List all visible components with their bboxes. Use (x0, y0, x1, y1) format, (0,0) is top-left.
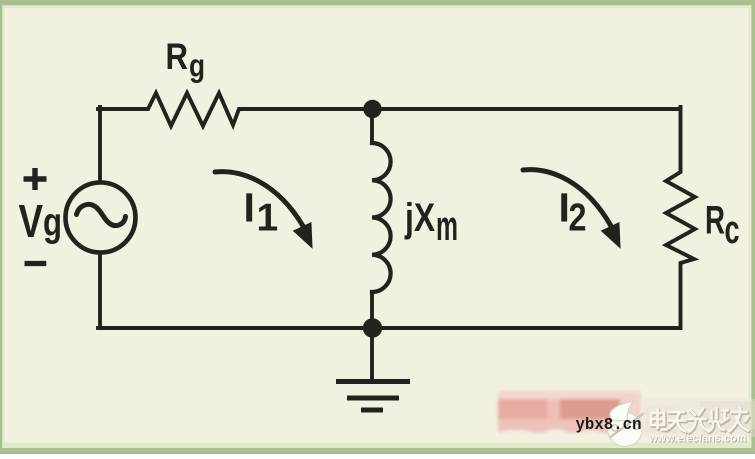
resistor Rc (666, 168, 695, 266)
inductor top stub (370, 109, 374, 143)
watermark pink mosaic patch (498, 391, 641, 439)
svg-text:R: R (166, 35, 189, 77)
wire top right of Rg to node A (243, 107, 372, 111)
wire bottom (98, 326, 681, 330)
label I1 (244, 185, 279, 240)
wire right vertical upper (679, 107, 683, 168)
watermark logo circle (608, 402, 645, 447)
label plus (24, 168, 47, 190)
svg-text:g: g (189, 48, 205, 84)
svg-text:c: c (725, 208, 740, 252)
watermark logo leaf (610, 402, 634, 422)
svg-text:1: 1 (257, 197, 279, 240)
inductor jXm (372, 143, 391, 292)
label Vg (19, 195, 63, 247)
svg-text:g: g (43, 201, 62, 245)
wire node A to top right corner (372, 107, 681, 111)
svg-text:I: I (244, 185, 255, 231)
svg-text:jX: jX (404, 196, 435, 240)
label jXm (404, 196, 458, 249)
label minus (25, 261, 47, 266)
svg-text:R: R (705, 199, 725, 243)
svg-text:www.elecfans.com: www.elecfans.com (648, 433, 747, 445)
svg-text:V: V (19, 195, 44, 247)
svg-text:m: m (436, 202, 458, 249)
svg-text:ybx8.cn: ybx8.cn (576, 416, 642, 435)
voltage source Vg (66, 183, 136, 253)
watermark logo bead 2 (633, 424, 639, 430)
current arrow I1 (215, 172, 312, 247)
ground stub (370, 328, 374, 379)
label Rc (705, 199, 740, 253)
wire top left (98, 107, 141, 111)
resistor Rg (141, 93, 243, 126)
watermark logo bead (612, 425, 618, 431)
node A dot (top) (363, 100, 381, 118)
current arrow I2 (523, 170, 620, 247)
watermark logo stem (610, 413, 646, 438)
inductor bottom stub (370, 292, 374, 328)
label Rg (166, 35, 206, 84)
watermark tan backdrop blocks (643, 399, 755, 437)
watermark text ybx8.cn (576, 416, 642, 435)
voltage source sine (77, 204, 126, 225)
watermark www.elecfans.com (648, 433, 747, 446)
svg-text:2: 2 (569, 197, 587, 240)
wire right vertical lower (679, 265, 683, 328)
node B dot (bottom) (363, 318, 382, 337)
watermark chinese characters (651, 408, 749, 433)
label I2 (559, 185, 587, 240)
wire left vertical upper (98, 107, 102, 182)
ground (336, 382, 410, 411)
wire left vertical lower (98, 253, 102, 328)
